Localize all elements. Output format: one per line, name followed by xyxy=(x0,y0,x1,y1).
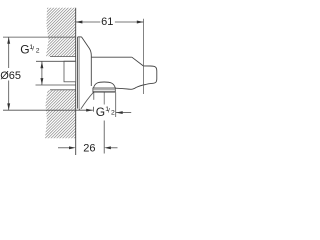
dim O65: bottom extent line (continues as flange bottom + G1/2 left arrow tail) xyxy=(3,109,93,111)
flange top edge xyxy=(78,36,82,38)
outlet pipe right edge / label extension xyxy=(115,92,117,117)
outlet pipe left edge xyxy=(93,92,95,99)
svg-text:2: 2 xyxy=(111,110,115,117)
outlet pipe left edge lower extension xyxy=(92,107,94,112)
dim 26: right arrowhead (tip at extension) xyxy=(104,146,111,149)
svg-text:2: 2 xyxy=(36,48,40,55)
outlet pipe centerline xyxy=(103,92,105,104)
outlet nut band xyxy=(93,88,115,92)
dim 26: right line segment xyxy=(111,147,118,149)
wall face line xyxy=(75,8,77,155)
dim G1/2 top: up arrowhead xyxy=(40,62,43,69)
label G1/2 bottom: left arrowhead (tip at pipe left edge ext.) xyxy=(86,109,93,112)
cone right edge xyxy=(90,57,92,86)
body top line xyxy=(91,56,132,58)
flange outer edge line xyxy=(77,37,79,109)
flange inner edge line xyxy=(78,37,80,109)
dim 26: left line segment xyxy=(58,147,70,149)
label G1/2 bottom xyxy=(96,105,115,119)
cone top silhouette xyxy=(82,37,92,57)
wall opening upper edge xyxy=(50,56,76,58)
outlet dome xyxy=(94,82,116,88)
nut band bottom thick line xyxy=(93,91,115,93)
dim 26: left arrowhead (tip at wall face) xyxy=(69,146,76,149)
dim O65: top arrowhead xyxy=(7,37,10,44)
dim G1/2 top: upper extent line xyxy=(36,60,76,62)
wall opening lower edge xyxy=(50,89,76,91)
svg-text:Ø65: Ø65 xyxy=(0,70,21,82)
dim G1/2 top: down arrowhead xyxy=(40,78,43,85)
label G1/2 bottom: arrowhead xyxy=(116,111,123,114)
svg-text:G: G xyxy=(20,43,29,57)
label G1/2 bottom: arrow line xyxy=(116,112,132,114)
svg-text:G: G xyxy=(96,105,105,119)
body right stepped end (holder) xyxy=(131,57,157,89)
dim 61: line left segment xyxy=(76,21,101,23)
dim O65: bottom arrowhead xyxy=(7,103,10,110)
dim O65: vertical line lower xyxy=(8,81,10,111)
dim G1/2 top: vertical dim line xyxy=(41,61,43,85)
wall hatch upper block xyxy=(0,0,218,160)
svg-text:/: / xyxy=(108,108,110,115)
cone bottom silhouette xyxy=(81,92,94,109)
nut band inner line xyxy=(93,89,115,91)
dim G1/2 top: lower extent line xyxy=(36,84,76,86)
dim 61: right arrowhead xyxy=(137,21,144,24)
dim O65: top extent line xyxy=(3,36,76,38)
dim 61: line right segment xyxy=(115,21,144,23)
svg-text:26: 26 xyxy=(83,143,95,155)
dim 61: left arrowhead xyxy=(76,21,83,24)
dim O65: vertical line upper xyxy=(8,37,10,68)
svg-text:/: / xyxy=(32,46,34,53)
dim 26: right extension line xyxy=(103,121,105,154)
flange bottom corner xyxy=(79,109,80,110)
label G1/2 top xyxy=(20,43,40,57)
wall hatch lower block xyxy=(0,0,218,160)
body bottom line xyxy=(115,88,131,89)
in-wall fitting rectangle xyxy=(64,61,76,82)
svg-text:61: 61 xyxy=(101,16,113,28)
holder axis / 61 extension line xyxy=(143,19,145,94)
